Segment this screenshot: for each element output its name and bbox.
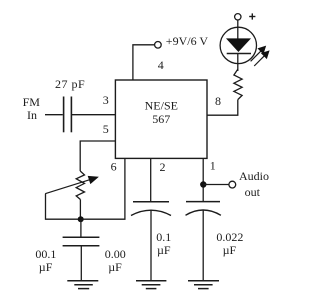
svg-text:4: 4 — [158, 58, 164, 72]
node label Audio out — [239, 169, 269, 199]
terminal +9V/6V — [155, 42, 162, 49]
wire pin 4 to supply terminal — [133, 45, 155, 80]
LED emission arrow 2 — [254, 51, 269, 66]
svg-text:µF: µF — [39, 260, 53, 274]
wire FM In to capacitor — [45, 114, 63, 116]
svg-text:FM: FM — [23, 95, 41, 109]
LED D1 circle — [220, 27, 256, 63]
LED cathode bar — [227, 53, 251, 55]
IC label NE/SE 567 — [145, 98, 178, 126]
svg-text:3: 3 — [103, 93, 109, 107]
resistor R1 — [234, 69, 242, 99]
svg-text:In: In — [27, 108, 37, 122]
wire pin 5 to potentiometer — [80, 141, 115, 171]
wire LED cathode to resistor — [237, 54, 239, 72]
junction node dot (audio out) — [200, 181, 206, 187]
potentiometer R2 zigzag — [76, 171, 84, 200]
wire terminal to LED — [237, 20, 239, 27]
svg-text:6: 6 — [111, 160, 117, 174]
svg-text:0.022: 0.022 — [216, 230, 243, 244]
value label 0.1 uF — [156, 230, 171, 257]
capacitor C1 27 pF — [64, 97, 72, 133]
wire capacitor C2 to ground — [80, 246, 82, 281]
wire junction to capacitor C2 — [80, 219, 82, 237]
svg-text:out: out — [245, 185, 261, 199]
svg-text:Audio: Audio — [239, 169, 269, 183]
IC U1 NE/SE 567 tone decoder body — [115, 80, 207, 158]
svg-text:00.1: 00.1 — [35, 247, 56, 261]
svg-text:NE/SE: NE/SE — [145, 98, 178, 112]
capacitor C4 curved plate — [186, 210, 221, 215]
wire capacitor C4 to ground — [202, 210, 204, 281]
wire capacitor C3 to ground — [150, 210, 152, 281]
svg-text:8: 8 — [215, 94, 221, 108]
value label 0.022 uF — [216, 230, 243, 257]
terminal + (LED anode supply) — [235, 14, 241, 20]
svg-text:27 pF: 27 pF — [55, 77, 85, 91]
wire capacitor to pin 3 — [71, 114, 115, 116]
svg-text:567: 567 — [152, 112, 170, 126]
ground (C4) — [188, 281, 219, 289]
ground (C2) — [67, 281, 98, 289]
svg-text:+9V/6 V: +9V/6 V — [166, 34, 209, 48]
capacitor C3 curved plate — [131, 210, 171, 215]
ground (C3) — [136, 281, 166, 289]
svg-text:µF: µF — [108, 260, 122, 274]
svg-text:5: 5 — [103, 122, 109, 136]
LED anode wire inside — [237, 27, 239, 39]
wire pin 1 down — [202, 158, 204, 201]
value label 0.00 uF — [105, 247, 126, 274]
svg-text:µF: µF — [157, 243, 171, 257]
svg-text:0.1: 0.1 — [156, 230, 171, 244]
capacitor C3 0.1 uF top plate — [133, 201, 169, 203]
potentiometer wiper arrow — [45, 176, 97, 193]
svg-text:µF: µF — [223, 243, 237, 257]
svg-text:1: 1 — [210, 159, 216, 173]
wire resistor to pin 8 — [207, 100, 238, 116]
plus label — [249, 13, 255, 19]
wire potentiometer bottom to junction — [79, 200, 81, 220]
junction node dot — [78, 216, 84, 222]
wire node to audio out terminal — [203, 184, 229, 186]
svg-text:2: 2 — [160, 160, 166, 174]
capacitor C4 0.022 uF top plate — [186, 201, 220, 203]
wire pin 2 to capacitor C3 — [150, 158, 152, 201]
LED triangle — [227, 39, 250, 52]
value label 00.1 uF — [35, 247, 56, 274]
terminal audio out — [229, 181, 236, 188]
svg-text:0.00: 0.00 — [105, 247, 126, 261]
capacitor C2 00.1 uF — [63, 237, 100, 246]
wire junction to pin 6 — [81, 158, 125, 219]
LED emission arrow 1 — [251, 46, 266, 61]
node label FM In — [23, 95, 41, 122]
wire wiper return to junction — [46, 194, 81, 220]
